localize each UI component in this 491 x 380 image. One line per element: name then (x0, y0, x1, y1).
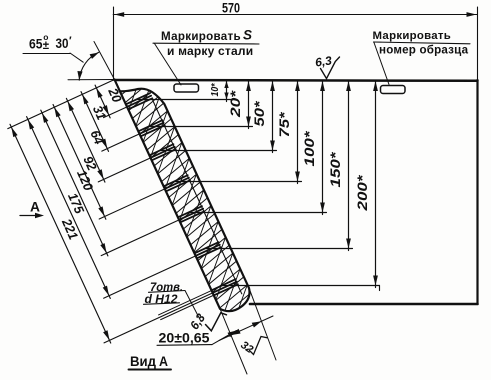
slant dimension 221 (10, 124, 214, 343)
svg-text:100*: 100* (302, 131, 317, 167)
chamfer edge line from vertex (115, 80, 120, 92)
inner edge line of chamfer band (153, 100, 242, 293)
svg-text:Маркировать: Маркировать (161, 30, 241, 43)
slant dimension 31 (81, 92, 141, 152)
angle dimension arc 65deg (77, 52, 98, 80)
svg-text:А: А (30, 199, 40, 215)
svg-text:50*: 50* (252, 101, 267, 127)
svg-text:20±0,65: 20±0,65 (159, 331, 211, 346)
left chamfer edge extension (220, 309, 247, 374)
surface roughness 6,3 on top surface (314, 53, 339, 78)
svg-text:′: ′ (69, 35, 72, 47)
surface roughness 6,3 on chamfer (187, 311, 226, 332)
depth dimension 200* with extension line (223, 81, 380, 291)
right chamfer edge extension (249, 288, 276, 360)
dimension line 570 (113, 12, 477, 17)
svg-text:30: 30 (56, 36, 69, 51)
svg-text:10*: 10* (209, 83, 221, 97)
depth dimension 75* with extension line (175, 81, 302, 184)
slant dimension 120 (41, 110, 181, 256)
svg-text:S: S (243, 28, 252, 43)
baseline for slant dimensions (8, 80, 115, 129)
label Markirovat S i marku stali (153, 28, 259, 59)
depth dimension 10* with extension line (137, 81, 231, 102)
svg-text:Вид: Вид (130, 354, 156, 369)
right edge of plate (476, 80, 478, 304)
dimension 20 plus-minus 0,65 (157, 331, 237, 346)
label Markirovat nomer obraztsa (373, 30, 471, 57)
slant dimension 175 (27, 117, 197, 299)
slant dimension 92 (53, 104, 166, 219)
extension line left for 570 (113, 7, 115, 79)
svg-text:200*: 200* (355, 175, 370, 212)
svg-text:65: 65 (29, 37, 43, 52)
svg-text:6,3: 6,3 (314, 53, 333, 69)
svg-text:20: 20 (105, 85, 125, 105)
top surface edge (115, 79, 478, 82)
marking area rectangle 1 (174, 84, 199, 92)
depth dimension 50* with extension line (160, 81, 276, 153)
depth dimension 100* with extension line (189, 81, 327, 215)
note 7 otv d H12 (144, 280, 186, 306)
label 32 with roughness tick (238, 337, 267, 356)
depth dimension 20* with extension line (149, 81, 252, 129)
width dimension line across chamfer (219, 316, 273, 341)
bottom edge of plate (250, 303, 478, 306)
extension line right for 570 (477, 7, 479, 79)
marking area rectangle 2 (381, 86, 406, 94)
svg-text:Маркировать: Маркировать (373, 30, 452, 42)
svg-text:и марку стали: и марку стали (167, 44, 253, 58)
label 65deg 30min (23, 32, 83, 62)
leader from note to hole 7 (185, 291, 201, 321)
svg-text:А: А (159, 354, 168, 369)
svg-text:±: ± (43, 40, 50, 52)
slant dimension 64 (66, 98, 152, 182)
hole 7 slot edge extensions (159, 291, 214, 320)
view A title (129, 354, 172, 370)
leader to marking area 2 (374, 42, 389, 85)
leader to marking area 1 (155, 44, 182, 86)
view direction label A (20, 199, 44, 219)
label 570 (222, 0, 240, 16)
svg-text:75*: 75* (277, 112, 292, 138)
slant dimension 20 (95, 85, 128, 118)
svg-text:570: 570 (222, 0, 240, 16)
surface extension left of vertex (68, 79, 115, 81)
svg-text:175: 175 (65, 191, 88, 217)
svg-text:20*: 20* (228, 90, 243, 118)
chamfer extension above surface (94, 42, 115, 80)
depth dimension 150* with extension line (206, 81, 353, 251)
svg-text:150*: 150* (328, 152, 343, 188)
7 drilled holes shown as slots across the chamfer (126, 93, 238, 295)
svg-text:номер образца: номер образца (379, 44, 469, 57)
hatching of chamfer face (108, 53, 272, 343)
